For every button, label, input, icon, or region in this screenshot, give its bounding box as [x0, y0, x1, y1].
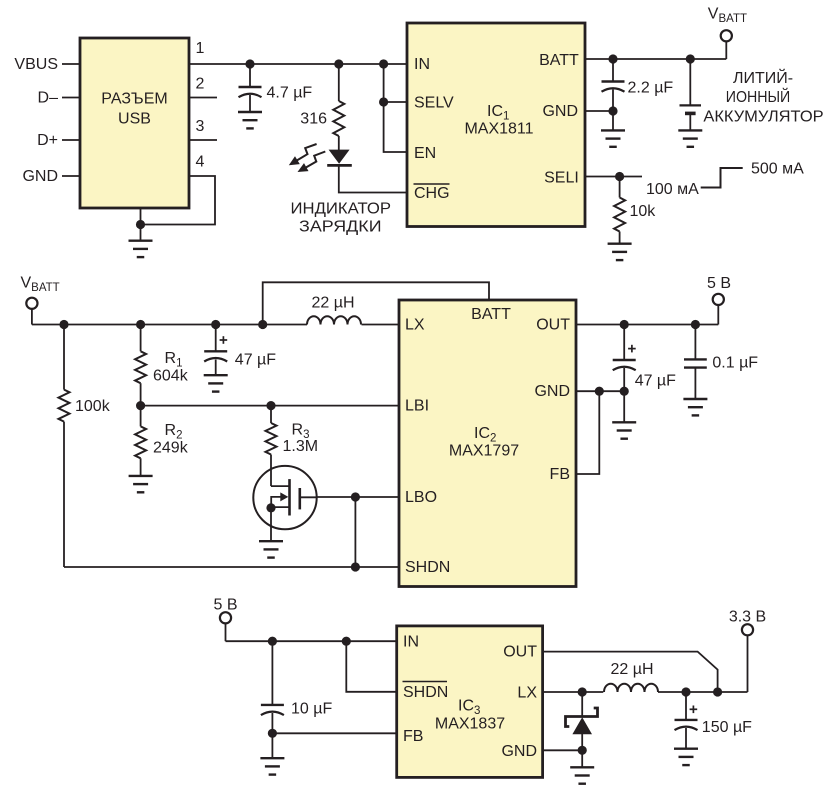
wire BATT rail: [585, 58, 726, 60]
junction R1 tap: [136, 320, 145, 329]
wire R1 to LBI: [140, 383, 142, 405]
svg-text:ЛИТИЙ-: ЛИТИЙ-: [733, 68, 793, 87]
svg-text:3: 3: [196, 118, 205, 135]
svg-text:5 В: 5 В: [707, 275, 731, 292]
junction SHDN: [351, 562, 360, 571]
capacitor 47 µF (input): [204, 325, 227, 376]
svg-text:VBATT: VBATT: [708, 6, 747, 26]
wire resistor top: [338, 64, 340, 101]
wire LBO: [317, 496, 399, 498]
LED D1: [327, 150, 352, 166]
wire LBO to SHDN: [354, 497, 356, 567]
junction LBI divider: [136, 401, 145, 410]
ground (C150): [674, 749, 698, 765]
terminal 5V (middle): [713, 294, 724, 325]
svg-text:D+: D+: [37, 132, 58, 149]
wire FB3: [272, 732, 396, 734]
wire R3 from LBI: [270, 406, 272, 423]
junction 10k top: [615, 172, 624, 181]
svg-text:SELV: SELV: [414, 95, 454, 112]
svg-text:GND: GND: [501, 743, 537, 760]
svg-text:2: 2: [196, 76, 205, 93]
junction C01 tap: [691, 320, 700, 329]
resistor 316: [333, 101, 344, 136]
ground (R2): [129, 476, 153, 492]
svg-text:100k: 100k: [75, 398, 111, 415]
svg-text:USB: USB: [118, 111, 151, 128]
ground (C01): [683, 399, 707, 415]
svg-text:47 µF: 47 µF: [635, 373, 676, 390]
svg-text:VBATT: VBATT: [21, 275, 60, 295]
junction SELV branch top: [379, 59, 388, 68]
svg-text:MAX1797: MAX1797: [449, 443, 519, 460]
svg-text:EN: EN: [414, 145, 436, 162]
diode D2 schottky: [566, 692, 598, 767]
junction SHDN3 tap: [342, 637, 351, 646]
ground (10k): [608, 244, 632, 260]
terminal 3.3V: [742, 624, 753, 692]
resistor R3 1.3M: [266, 423, 277, 455]
resistor 100k: [59, 390, 70, 422]
capacitor C1 4.7 µF: [239, 64, 262, 112]
svg-text:ИОННЫЙ: ИОННЫЙ: [726, 87, 791, 106]
IC3 MAX1837: [397, 626, 543, 778]
wire 10k top: [619, 177, 621, 198]
wire inductor to output: [658, 691, 748, 693]
junction LED resistor tap: [334, 59, 343, 68]
svg-text:4.7 µF: 4.7 µF: [267, 85, 313, 102]
svg-text:OUT: OUT: [536, 317, 570, 334]
svg-text:1: 1: [196, 40, 205, 57]
svg-text:FB: FB: [403, 728, 423, 745]
current step symbol: [701, 168, 743, 188]
ground (C1): [238, 112, 262, 128]
svg-text:OUT: OUT: [503, 644, 537, 661]
svg-text:500 мА: 500 мА: [751, 161, 804, 178]
svg-text:4: 4: [196, 154, 205, 171]
wire 5V rail bottom: [226, 640, 397, 642]
wire pin4 loop to ground: [141, 176, 216, 225]
junction battery tap: [686, 54, 695, 63]
svg-text:22 µH: 22 µH: [311, 295, 354, 312]
wire 10k to ground: [619, 232, 621, 244]
junction R3 top: [266, 401, 275, 410]
svg-text:FB: FB: [550, 466, 570, 483]
wire SHDN3 branch: [346, 641, 396, 692]
svg-text:GND: GND: [542, 103, 578, 120]
wire LED to CHG: [339, 165, 407, 192]
svg-text:CHG: CHG: [414, 185, 450, 202]
capacitor C2 2.2 µF: [602, 59, 625, 131]
svg-text:D–: D–: [38, 90, 59, 107]
wire R2 to ground: [140, 458, 142, 476]
ground (battery): [678, 130, 702, 146]
wire SELI: [585, 176, 642, 178]
svg-text:10 µF: 10 µF: [291, 701, 332, 718]
junction OUT3 join: [713, 687, 722, 696]
wire pin3 stub: [189, 139, 217, 141]
svg-text:604k: 604k: [153, 368, 189, 385]
wire BATT branch: [263, 282, 489, 324]
wire GND pin stub: [585, 110, 613, 112]
junction C10 tap: [268, 637, 277, 646]
junction C2 tap: [608, 54, 617, 63]
junction BATT branch tap: [258, 320, 267, 329]
ground (USB): [129, 241, 153, 257]
wire SELV-EN branch: [384, 64, 407, 152]
terminal VBATT (middle): [26, 298, 37, 325]
junction FB3: [268, 729, 277, 738]
terminal 5V (bottom): [220, 612, 231, 641]
junction 100k tap: [59, 320, 68, 329]
wire VBUS stub: [62, 63, 80, 65]
svg-text:1.3M: 1.3M: [283, 438, 319, 455]
wire pin1 VBUS to IN: [189, 63, 407, 65]
capacitor 47 µF (output): [613, 325, 636, 392]
svg-text:SHDN: SHDN: [403, 684, 448, 701]
ground (C2): [601, 130, 625, 146]
wire VBATT rail: [32, 324, 307, 326]
junction SELV: [379, 97, 388, 106]
svg-text:3.3 В: 3.3 В: [729, 609, 766, 626]
junction C47out tap: [620, 320, 629, 329]
svg-text:MAX1811: MAX1811: [464, 121, 533, 138]
transistor Q1 MOSFET: [253, 466, 316, 541]
svg-text:316: 316: [300, 111, 327, 128]
IC1 MAX1811: [407, 23, 585, 227]
junction FB-GND: [595, 387, 604, 396]
junction diode tap: [578, 687, 587, 696]
junction USB ground: [136, 220, 145, 229]
svg-text:IN: IN: [414, 56, 430, 73]
svg-text:BATT: BATT: [539, 52, 579, 69]
svg-text:GND: GND: [534, 383, 570, 400]
wire D+ stub: [62, 139, 80, 141]
wire SELV stub: [384, 101, 407, 103]
svg-text:ЗАРЯДКИ: ЗАРЯДКИ: [299, 218, 382, 235]
ground (C10): [260, 758, 284, 774]
svg-text:LBO: LBO: [405, 489, 437, 506]
svg-text:100 мА: 100 мА: [646, 181, 699, 198]
battery ЛИТИЙ-ИОННЫЙ: [680, 59, 702, 131]
wire FB loop: [576, 391, 599, 474]
svg-text:MAX1837: MAX1837: [435, 716, 505, 733]
svg-text:LBI: LBI: [405, 398, 429, 415]
label plus C150: [690, 706, 698, 714]
svg-text:VBUS: VBUS: [14, 56, 58, 73]
svg-text:2.2 µF: 2.2 µF: [628, 80, 674, 97]
wire pin2 stub: [189, 97, 217, 99]
junction C150 tap: [681, 687, 690, 696]
svg-text:5 В: 5 В: [213, 597, 237, 614]
connector РАЗЪЕМ USB: [80, 38, 189, 208]
wire R1 top: [140, 325, 142, 352]
junction D2 GND: [578, 746, 587, 755]
ground (C47out): [612, 422, 636, 438]
wire SHDN: [64, 566, 399, 568]
wire GND stub IC2: [576, 390, 624, 392]
wire USB shell to ground: [140, 208, 142, 241]
wire R2 top: [140, 406, 142, 427]
svg-text:ИНДИКАТОР: ИНДИКАТОР: [291, 201, 392, 218]
label plus C47in: [220, 336, 228, 344]
wire 100k to SHDN: [63, 422, 65, 567]
ground (D2): [570, 767, 594, 783]
wire GND stub: [62, 175, 80, 177]
svg-text:249k: 249k: [153, 440, 189, 457]
wire inductor to LX: [362, 324, 400, 326]
wire 100k top: [63, 325, 65, 390]
svg-text:РАЗЪЕМ: РАЗЪЕМ: [101, 91, 167, 108]
inductor 22 µH (buck): [604, 684, 658, 692]
LED light arrow 1: [289, 144, 317, 165]
wire OUT3 diagonal: [543, 652, 718, 692]
wire D- stub: [62, 97, 80, 99]
wire resistor to LED: [338, 136, 340, 151]
wire GND3 stub: [543, 749, 583, 751]
resistor R2 249k: [135, 426, 146, 458]
wire LX to inductor: [543, 691, 604, 693]
svg-text:47 µF: 47 µF: [235, 352, 276, 369]
svg-text:SHDN: SHDN: [405, 559, 450, 576]
svg-text:АККУМУЛЯТОР: АККУМУЛЯТОР: [703, 109, 823, 126]
svg-text:GND: GND: [22, 168, 58, 185]
svg-text:BATT: BATT: [471, 306, 511, 323]
svg-text:LX: LX: [405, 317, 425, 334]
capacitor 150 µF: [675, 692, 698, 749]
resistor 10k: [614, 198, 625, 232]
junction LBO: [351, 492, 360, 501]
resistor R1 604k: [135, 351, 146, 383]
svg-text:150 µF: 150 µF: [702, 719, 752, 736]
junction C2 GND: [608, 106, 617, 115]
IC2 MAX1797: [399, 300, 576, 587]
wire R3 to MOSFET: [270, 455, 272, 487]
svg-text:10k: 10k: [630, 203, 657, 220]
label plus C47out: [628, 345, 636, 353]
ground (C47in): [204, 375, 228, 391]
wire LBI: [141, 405, 399, 407]
capacitor 10 µF: [261, 641, 284, 758]
junction C47out GND: [620, 387, 629, 396]
junction C1 tap: [245, 59, 254, 68]
svg-text:SELI: SELI: [544, 170, 579, 187]
svg-text:22 µH: 22 µH: [610, 661, 653, 678]
inductor 22 µH (boost): [307, 316, 361, 324]
junction C47in tap: [211, 320, 220, 329]
wire OUT 5V rail: [576, 324, 718, 326]
LED light arrow 2: [298, 152, 326, 173]
svg-text:LX: LX: [517, 685, 537, 702]
capacitor 0.1 µF: [684, 325, 707, 400]
svg-text:IN: IN: [403, 634, 419, 651]
terminal VBATT (top): [721, 30, 732, 59]
wire C47out to ground: [623, 391, 625, 422]
ground (Q1): [259, 541, 283, 557]
svg-text:0.1 µF: 0.1 µF: [712, 355, 758, 372]
